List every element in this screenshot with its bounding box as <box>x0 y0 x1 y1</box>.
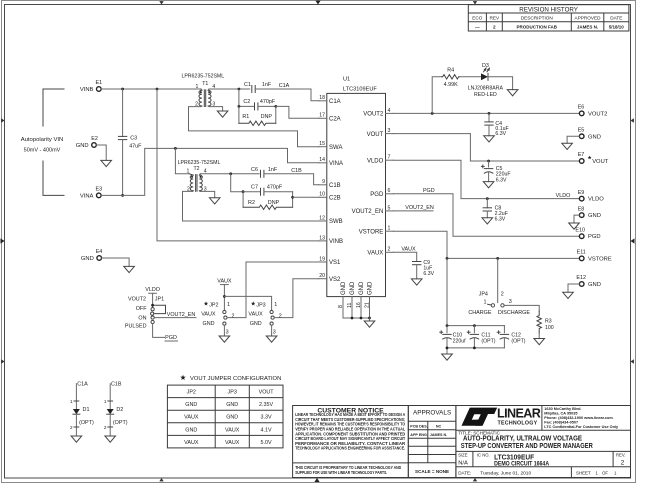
wire VOUT from U1 pin 3 to E7 <box>394 134 580 161</box>
svg-text:LTC Confidential-For Customer: LTC Confidential-For Customer Use Only <box>544 425 619 429</box>
wire C1A stub to D1 <box>70 384 79 409</box>
svg-text:6.3V: 6.3V <box>423 271 434 277</box>
svg-text:2: 2 <box>70 425 73 430</box>
terminal E1 VINB <box>80 80 102 93</box>
wire T2 pin 4 to C6 <box>200 173 259 175</box>
svg-text:2: 2 <box>621 460 625 467</box>
svg-text:C2: C2 <box>243 99 250 105</box>
svg-text:ON: ON <box>138 315 146 321</box>
ground bus under U1 <box>343 317 371 320</box>
svg-text:DATE:: DATE: <box>458 471 471 476</box>
svg-text:2.35V: 2.35V <box>259 402 273 408</box>
svg-text:4: 4 <box>388 108 391 114</box>
zone tick bottom quarter left <box>159 478 163 481</box>
wire T1 pin 3 to ground <box>209 107 223 111</box>
node VSTORE at JP4 vertical <box>496 257 499 260</box>
diode D1 OPT <box>73 407 94 426</box>
terminal E12 GND <box>576 275 600 288</box>
svg-text:R4: R4 <box>447 67 454 73</box>
svg-text:11: 11 <box>347 303 353 308</box>
svg-text:PGD: PGD <box>370 192 384 198</box>
svg-text:100: 100 <box>545 325 554 331</box>
svg-text:13: 13 <box>319 235 325 241</box>
svg-text:6.3V: 6.3V <box>496 177 507 183</box>
svg-text:C1A: C1A <box>279 83 290 89</box>
svg-text:LINEAR: LINEAR <box>497 407 541 421</box>
jumper JP4 CHARGE/DISCHARGE <box>468 291 530 316</box>
svg-text:CHARGE: CHARGE <box>468 310 491 316</box>
svg-text:E6: E6 <box>578 105 585 111</box>
svg-text:E11: E11 <box>577 250 586 256</box>
svg-text:1630 McCarthy Blvd.: 1630 McCarthy Blvd. <box>544 407 581 411</box>
zone tick right quarter top <box>631 118 634 122</box>
svg-text:GND: GND <box>81 256 94 262</box>
svg-text:OF: OF <box>602 471 608 476</box>
wire E2 to ground <box>96 145 106 160</box>
svg-text:470pF: 470pF <box>267 185 283 191</box>
svg-text:SIZE: SIZE <box>458 452 468 457</box>
wire C1 to U1 pin 18 C1A <box>255 89 318 101</box>
capacitor C1 1nF <box>244 82 272 93</box>
title block logo and title box <box>456 406 631 478</box>
svg-text:JP3: JP3 <box>256 302 265 308</box>
svg-text:6.3V: 6.3V <box>495 131 506 137</box>
svg-text:VINB: VINB <box>80 87 94 93</box>
svg-text:GND: GND <box>185 402 197 408</box>
capacitor C5 220uF 6.3V polarized <box>481 161 510 183</box>
svg-text:GND: GND <box>185 427 197 433</box>
op-amp U1 LTC3109EUF (IC body) <box>327 77 386 297</box>
wire VOUT2_EN stub at U1 pin 5 <box>394 210 434 212</box>
ground symbol at D3 <box>507 90 518 96</box>
svg-text:TECHNOLOGY: TECHNOLOGY <box>498 420 538 426</box>
pin 18 C1A of U1 <box>319 95 341 105</box>
svg-text:1: 1 <box>227 302 230 308</box>
svg-text:APP ENG.: APP ENG. <box>410 433 428 437</box>
svg-text:VOUT JUMPER CONFIGURATION: VOUT JUMPER CONFIGURATION <box>190 376 281 382</box>
svg-text:T1: T1 <box>202 81 208 87</box>
svg-text:6: 6 <box>388 188 391 194</box>
svg-text:R3: R3 <box>545 319 552 325</box>
node VSTORE at C10 vertical <box>446 257 449 260</box>
svg-text:JP1: JP1 <box>155 296 164 302</box>
svg-text:18: 18 <box>319 95 325 101</box>
net label VAUX at JP2 <box>217 279 232 285</box>
resistor R3 100 <box>537 311 554 333</box>
svg-text:GND: GND <box>226 402 238 408</box>
zone tick left <box>1 238 5 243</box>
svg-text:GND: GND <box>350 281 356 295</box>
pin 20 VS2 of U1 <box>319 273 341 283</box>
svg-text:GND: GND <box>76 143 89 149</box>
logo Linear Technology <box>462 407 541 427</box>
wire VOUT2_EN from JP1 <box>154 317 196 319</box>
wire E5 to ground <box>567 136 579 143</box>
svg-text:R2: R2 <box>248 200 255 206</box>
svg-text:SWB: SWB <box>329 219 343 225</box>
node VINA branch to T2 <box>174 147 177 150</box>
svg-text:PCB DES.: PCB DES. <box>410 425 427 429</box>
capacitor C11 OPT polarized <box>467 326 496 348</box>
svg-text:4.1V: 4.1V <box>261 427 272 433</box>
pin 2 VAUX of U1 <box>367 247 393 257</box>
pin 10 C2B of U1 <box>319 192 341 202</box>
node VINB at C3 <box>121 88 124 91</box>
svg-text:E4: E4 <box>96 249 103 255</box>
svg-text:(OPT): (OPT) <box>79 420 94 426</box>
svg-text:2: 2 <box>501 291 504 297</box>
svg-text:VOUT2_EN: VOUT2_EN <box>405 205 434 211</box>
capacitor C2 470pF <box>243 99 275 110</box>
svg-text:20: 20 <box>319 273 325 279</box>
terminal E2 GND <box>76 136 98 149</box>
svg-text:E5: E5 <box>578 128 585 134</box>
pin 3 VOUT of U1 <box>367 128 394 138</box>
node VINA at C3 bottom <box>121 194 124 197</box>
ground symbol at T1 pin 3 <box>217 111 228 117</box>
svg-text:10: 10 <box>319 192 325 198</box>
svg-text:RED-LED: RED-LED <box>474 92 497 98</box>
svg-text:19: 19 <box>319 256 325 262</box>
node C2B junction <box>291 196 294 199</box>
wire VAUX from U1 pin 2 to C9 <box>394 252 417 261</box>
svg-text:LNJ208R8ARA: LNJ208R8ARA <box>468 86 504 92</box>
svg-text:E3: E3 <box>96 187 103 193</box>
svg-text:3: 3 <box>509 299 512 305</box>
node VOUT2 at R4 branch <box>431 112 434 115</box>
ground symbol at D2 <box>105 436 116 442</box>
zone tick left quarter top <box>1 118 4 122</box>
svg-text:VINA: VINA <box>329 161 343 167</box>
svg-text:E10: E10 <box>575 227 585 233</box>
svg-text:APPROVED: APPROVED <box>574 16 601 21</box>
capacitor C12 OPT polarized <box>497 326 526 348</box>
wire D2 to ground <box>104 414 113 436</box>
svg-text:LTC3109EUF: LTC3109EUF <box>343 87 377 93</box>
svg-text:DNP: DNP <box>261 114 273 120</box>
svg-text:VAUX: VAUX <box>201 312 216 318</box>
svg-text:C1B: C1B <box>329 183 341 189</box>
node C2 left R1 <box>238 105 241 108</box>
wire VINB from E1 to T1 pin 1 <box>101 88 201 90</box>
svg-text:E7: E7 <box>578 152 585 158</box>
svg-text:C7: C7 <box>251 185 258 191</box>
svg-text:5/18/10: 5/18/10 <box>609 25 625 30</box>
svg-text:GND: GND <box>588 134 601 140</box>
svg-text:VLDO: VLDO <box>556 193 571 199</box>
ground symbol at E2 <box>101 160 112 166</box>
wire E4 to ground <box>102 258 130 266</box>
ground symbol at JP2 <box>219 336 230 342</box>
wire C7 right side <box>264 191 293 193</box>
svg-text:TECHNOLOGY APPLICATIONS ENGINE: TECHNOLOGY APPLICATIONS ENGINEERING FOR … <box>295 446 405 451</box>
net label PGD at JP1 <box>165 335 178 341</box>
node bottom bus at C10 <box>446 347 449 350</box>
wire VSTORE from U1 pin 1 to E11 <box>394 231 580 258</box>
svg-text:VAUX: VAUX <box>225 427 240 433</box>
svg-text:APPROVALS: APPROVALS <box>413 409 451 416</box>
wire capacitor bank top bus <box>447 325 504 327</box>
pin 13 VINB of U1 <box>319 235 343 245</box>
wire C6 to U1 pin 9 C1B <box>264 174 319 185</box>
svg-text:PRODUCTION FAB: PRODUCTION FAB <box>517 25 558 30</box>
svg-text:D1: D1 <box>83 407 90 413</box>
svg-text:VAUX: VAUX <box>217 279 232 285</box>
pin 12 SWB of U1 <box>319 215 343 225</box>
svg-text:E8: E8 <box>578 206 585 212</box>
svg-text:21: 21 <box>364 302 370 308</box>
title block approvals box <box>408 406 456 478</box>
svg-text:AUTO-POLARITY, ULTRALOW VOLTAG: AUTO-POLARITY, ULTRALOW VOLTAGE <box>463 436 582 443</box>
svg-text:(OPT): (OPT) <box>113 420 128 426</box>
svg-text:GND: GND <box>588 213 601 219</box>
svg-text:14: 14 <box>319 157 325 163</box>
svg-text:C2B: C2B <box>329 196 341 202</box>
svg-text:VOUT2_EN: VOUT2_EN <box>167 312 196 318</box>
svg-text:DEMO CIRCUIT 1664A: DEMO CIRCUIT 1664A <box>494 461 549 468</box>
svg-text:SWA: SWA <box>329 145 342 151</box>
wire T1 pin 4 to C1 <box>209 88 250 90</box>
svg-text:1: 1 <box>70 399 73 404</box>
wire C1B stub to D2 <box>104 384 113 409</box>
zone tick bottom <box>314 478 319 482</box>
wire capacitor bank bottom bus <box>447 347 504 349</box>
capacitor C3 <box>118 89 142 195</box>
pin 5 VOUT2_EN of U1 <box>352 205 394 215</box>
node VAUX junction to JP3 <box>223 295 226 298</box>
wire T1 pin 2 to U1 pin 15 SWA <box>189 107 319 147</box>
terminal E3 VINA <box>80 187 102 200</box>
svg-text:50mV - 400mV: 50mV - 400mV <box>24 147 61 153</box>
wire JP4 pin 2 vertical <box>497 258 499 302</box>
ground symbol at E4 <box>124 266 135 272</box>
capacitor C8 2.2uF 6.3V <box>483 199 508 223</box>
capacitor C9 1uF 6.3V <box>413 260 435 279</box>
svg-text:1: 1 <box>388 226 391 232</box>
svg-text:VAUX: VAUX <box>225 440 240 446</box>
jumper JP2 <box>201 301 234 335</box>
transformer T2 LPR6235-752SML <box>178 160 221 193</box>
svg-text:C1A: C1A <box>77 381 88 387</box>
svg-text:GND: GND <box>250 321 262 327</box>
terminal E8 GND <box>578 206 601 219</box>
node bottom bus at C11 <box>473 347 476 350</box>
terminal E6 VOUT2 <box>578 105 608 118</box>
node top bus at C10 <box>446 324 449 327</box>
jumper configuration table <box>167 385 283 448</box>
ground symbol at D1 <box>71 436 82 442</box>
svg-text:3.3V: 3.3V <box>261 415 272 421</box>
svg-text:ECO: ECO <box>472 16 483 21</box>
svg-text:VLDO: VLDO <box>588 197 604 203</box>
wire E8 to ground <box>574 215 579 223</box>
svg-text:DISCHARGE: DISCHARGE <box>498 310 530 316</box>
svg-text:4.99K: 4.99K <box>444 82 458 88</box>
svg-text:Milpitas, CA 95035: Milpitas, CA 95035 <box>544 411 577 415</box>
svg-text:DNP: DNP <box>268 200 280 206</box>
wire R4 to D3 <box>459 76 481 78</box>
svg-text:GND: GND <box>359 281 365 295</box>
svg-text:3: 3 <box>273 330 276 336</box>
svg-text:C2A: C2A <box>329 117 341 123</box>
wire JP2 pin 2 to U1 pin 19 VS1 <box>227 262 319 318</box>
zone tick top quarter left <box>159 1 163 4</box>
svg-text:3: 3 <box>226 330 229 336</box>
terminal E7 VOUT <box>578 152 609 165</box>
svg-text:—: — <box>475 25 480 30</box>
zone tick top <box>315 1 320 5</box>
ground symbol at JP3 <box>266 336 277 342</box>
svg-text:17: 17 <box>319 113 325 119</box>
zone tick left quarter bottom <box>1 359 4 363</box>
svg-text:GND: GND <box>368 281 374 295</box>
wire VLDO to JP1 <box>152 293 154 307</box>
capacitor C6 1nF <box>251 167 278 178</box>
svg-text:LPR6235-752SML: LPR6235-752SML <box>181 73 224 79</box>
svg-text:VAUX: VAUX <box>248 312 263 318</box>
node T2 pin 4 junction <box>229 172 232 175</box>
node C7 left junction <box>242 190 245 193</box>
svg-text:VAUX: VAUX <box>367 251 383 257</box>
svg-text:Tuesday, June 01, 2010: Tuesday, June 01, 2010 <box>480 471 531 477</box>
wire R4 branch up <box>432 77 442 114</box>
wire D3 cathode to ground <box>488 77 513 90</box>
svg-text:JP3: JP3 <box>228 390 237 396</box>
svg-text:2: 2 <box>388 247 391 253</box>
ground symbol at E12 <box>563 292 574 298</box>
capacitor C4 0.1uF 6.3V <box>485 113 509 136</box>
svg-text:5.0V: 5.0V <box>261 440 272 446</box>
wire VINA branch to T2 pin 1 <box>175 148 189 173</box>
svg-text:470pF: 470pF <box>260 99 276 105</box>
wire D1 to ground <box>70 414 79 436</box>
pin 15 SWA of U1 <box>319 141 343 151</box>
svg-text:JAMES N.: JAMES N. <box>430 433 447 437</box>
wire C2A to U1 pin 17 <box>276 106 319 118</box>
diode D3 LNJ208R8ARA RED-LED <box>468 63 504 98</box>
svg-text:IC NO.: IC NO. <box>477 452 490 457</box>
pin 1 VSTORE of U1 <box>359 226 394 236</box>
svg-text:D2: D2 <box>116 407 123 413</box>
svg-text:C1B: C1B <box>111 381 122 387</box>
svg-text:5: 5 <box>388 205 391 211</box>
revision history table <box>468 5 629 31</box>
svg-text:Fax: (408)434-0507: Fax: (408)434-0507 <box>544 421 578 425</box>
svg-text:Autopolarity VIN: Autopolarity VIN <box>21 137 64 143</box>
node JP1 top junction <box>151 304 154 307</box>
ground symbol at T2 pin 3 <box>209 198 220 204</box>
svg-text:N/A: N/A <box>458 460 468 466</box>
node C2 right R1 <box>274 105 277 108</box>
svg-text:1: 1 <box>484 300 487 306</box>
svg-text:47uF: 47uF <box>129 144 142 150</box>
wire VSTORE down to capacitor bank <box>446 258 448 325</box>
node VOUT2 at C4 branch <box>488 112 491 115</box>
svg-text:PGD: PGD <box>423 188 435 194</box>
diode D2 OPT <box>107 407 128 426</box>
wire E12 to ground <box>568 284 579 292</box>
svg-text:Phone: (408)432-1900 www.line: Phone: (408)432-1900 www.linear.com <box>544 416 613 420</box>
svg-text:8: 8 <box>338 305 344 308</box>
wire T2 pin 3 to ground <box>200 191 214 197</box>
svg-text:16: 16 <box>356 302 362 308</box>
svg-text:STEP-UP CONVERTER AND POWER MA: STEP-UP CONVERTER AND POWER MANAGER <box>461 443 593 450</box>
svg-text:(OPT): (OPT) <box>481 339 495 345</box>
ground symbol at R3 <box>534 339 545 345</box>
wire VINA from E3 to U1 pin 14 <box>101 148 319 195</box>
svg-text:SCALE = NONE: SCALE = NONE <box>415 469 449 474</box>
svg-text:C6: C6 <box>251 167 258 173</box>
svg-text:PGD: PGD <box>165 335 177 341</box>
svg-text:GND: GND <box>226 415 238 421</box>
wire JP4 pin 3 to R3 <box>504 305 539 311</box>
svg-text:VLDO: VLDO <box>145 287 160 293</box>
resistor R1 DNP <box>239 106 276 125</box>
svg-text:GND: GND <box>341 281 347 295</box>
pin 17 C2A of U1 <box>319 113 341 123</box>
svg-text:(OPT): (OPT) <box>511 339 525 345</box>
wire VAUX to JP2 pin 1 <box>223 285 225 311</box>
svg-text:VAUX: VAUX <box>401 247 416 253</box>
node T1 pin 4 junction <box>238 88 241 91</box>
wire VINB vertical to U1 pin 13 <box>157 89 319 241</box>
svg-text:C1: C1 <box>244 82 251 88</box>
ground symbol at C8 <box>482 218 493 224</box>
jumper JP3 <box>248 301 281 335</box>
svg-text:220uf: 220uf <box>453 339 467 345</box>
wire PGD from U1 pin 6 to E10 <box>394 194 580 236</box>
svg-text:VOUT2: VOUT2 <box>128 296 146 302</box>
svg-text:1nF: 1nF <box>268 167 278 173</box>
svg-text:C1B: C1B <box>291 168 302 174</box>
svg-text:1nF: 1nF <box>262 82 272 88</box>
resistor R4 4.99K <box>442 67 460 87</box>
svg-text:VINA: VINA <box>80 193 94 199</box>
wire JP1 PULSED pin to PGD <box>153 324 165 338</box>
svg-text:OFF: OFF <box>136 306 147 312</box>
svg-text:JP2: JP2 <box>209 302 218 308</box>
svg-text:REV: REV <box>489 16 500 21</box>
svg-text:VINB: VINB <box>329 239 343 245</box>
svg-text:VS2: VS2 <box>329 277 341 283</box>
input bracket Autopolarity VIN <box>21 89 64 195</box>
svg-text:E1: E1 <box>96 80 103 86</box>
capacitor C7 470pF <box>251 185 283 196</box>
pin 21 GND of U1 <box>364 281 373 318</box>
svg-text:2: 2 <box>104 425 107 430</box>
ground symbol under U1 <box>364 318 375 327</box>
pin 8 GND of U1 <box>338 281 347 318</box>
svg-text:VS1: VS1 <box>329 260 341 266</box>
svg-text:VOUT: VOUT <box>592 159 609 165</box>
wire bottom bus to ground <box>446 348 448 354</box>
title text <box>458 431 625 477</box>
terminal E9 VLDO <box>578 190 605 203</box>
svg-text:6.3V: 6.3V <box>495 217 506 223</box>
svg-text:REVISION HISTORY: REVISION HISTORY <box>519 6 578 13</box>
svg-text:VOUT: VOUT <box>367 132 384 138</box>
title block customer notice box <box>293 406 409 478</box>
svg-text:VOUT2: VOUT2 <box>363 112 384 118</box>
svg-text:VOUT2: VOUT2 <box>588 111 607 117</box>
svg-text:E2: E2 <box>91 136 98 142</box>
svg-text:R1: R1 <box>242 114 249 120</box>
resistor R2 DNP <box>243 192 293 210</box>
svg-text:1: 1 <box>196 84 199 90</box>
svg-text:VLDO: VLDO <box>367 158 384 164</box>
terminal E4 GND <box>81 249 102 262</box>
pin 6 PGD of U1 <box>370 188 393 198</box>
